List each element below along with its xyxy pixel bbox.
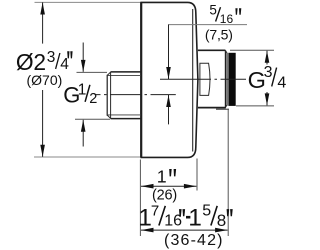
svg-text:2: 2	[89, 91, 97, 107]
nut right face outer	[224, 51, 226, 109]
svg-text:(36-42): (36-42)	[164, 232, 224, 249]
G3/4 lower arrow	[266, 92, 268, 105]
stub chamfer bottom diagonal	[107, 115, 111, 119]
svg-text:3: 3	[264, 64, 273, 81]
nut top chamfer diagonal	[225, 50, 227, 53]
dim Ø2 3/4 down arrow	[40, 145, 45, 157]
nut bottom chamfer diagonal	[225, 105, 227, 108]
G1/2 lower arrow	[82, 120, 84, 147]
G3/4 upper arrow	[266, 51, 268, 65]
thread black bar	[229, 53, 236, 106]
svg-text:4: 4	[60, 56, 69, 73]
ext line right x=228.2	[227, 109, 229, 236]
dim Ø2 3/4 up arrow	[40, 2, 45, 14]
centerline G1/2 (lower)	[95, 94, 176, 96]
svg-text:2: 2	[33, 49, 46, 75]
svg-text:7: 7	[151, 203, 159, 220]
5/16 upper arrow line	[168, 25, 170, 79]
stub chamfer line	[110, 72, 112, 119]
svg-text:1: 1	[188, 205, 202, 232]
svg-text:1: 1	[78, 81, 87, 98]
stub chamfer top diagonal	[107, 72, 111, 76]
svg-text:(26): (26)	[152, 187, 177, 203]
G3/4 bottom extension line	[236, 105, 274, 107]
svg-text:8: 8	[217, 211, 226, 230]
extension line bottom (Ø2 3/4 lower)	[34, 156, 141, 158]
stub G1/2 crest bottom	[111, 118, 141, 120]
svg-text:5: 5	[202, 202, 211, 219]
ext line left x=140.4	[139, 160, 141, 237]
flange left edge thick	[140, 2, 142, 157]
stub end face	[106, 75, 108, 116]
thread bar left outline	[227, 53, 229, 106]
dim line 1 inch	[141, 185, 196, 187]
stub root top	[108, 75, 141, 77]
svg-text:1: 1	[157, 167, 167, 187]
extension line top (Ø2 3/4 upper)	[35, 1, 142, 3]
G1/2 top extension line	[77, 71, 108, 73]
svg-text:4: 4	[277, 74, 286, 91]
flange escutcheon outline	[141, 2, 198, 157]
nut G3/4 top edge	[198, 49, 226, 51]
stub root bottom	[108, 114, 141, 116]
nut G3/4 bottom edge	[198, 107, 226, 109]
svg-text:1: 1	[138, 205, 152, 232]
svg-text:5: 5	[209, 3, 217, 18]
nut right face inner	[226, 53, 228, 106]
svg-text:Ø: Ø	[16, 49, 34, 75]
G3/4 top extension line	[230, 49, 274, 51]
nut bottom second line	[216, 108, 229, 110]
G1/2 upper arrow	[82, 43, 84, 72]
svg-text:(7,5): (7,5)	[205, 26, 233, 42]
G1/2 bottom extension line	[75, 118, 110, 120]
svg-text:16: 16	[220, 12, 234, 26]
svg-text:3: 3	[47, 49, 56, 66]
svg-text:(Ø70): (Ø70)	[27, 72, 63, 88]
lens inside nut	[200, 63, 210, 95]
5/16 lower arrow line	[168, 95, 170, 124]
dim Ø2 3/4 line lower segment	[42, 90, 44, 157]
dim Ø2 3/4 line upper segment	[42, 2, 44, 43]
dim line 36-42	[141, 229, 228, 231]
5/16 leader line	[168, 24, 247, 26]
centerline G3/4 (upper)	[160, 78, 246, 80]
stub G1/2 crest top	[111, 71, 141, 73]
flange inner contour	[192, 9, 194, 152]
ext line right of flange for 1 inch	[196, 159, 198, 191]
svg-text:16: 16	[164, 213, 182, 230]
